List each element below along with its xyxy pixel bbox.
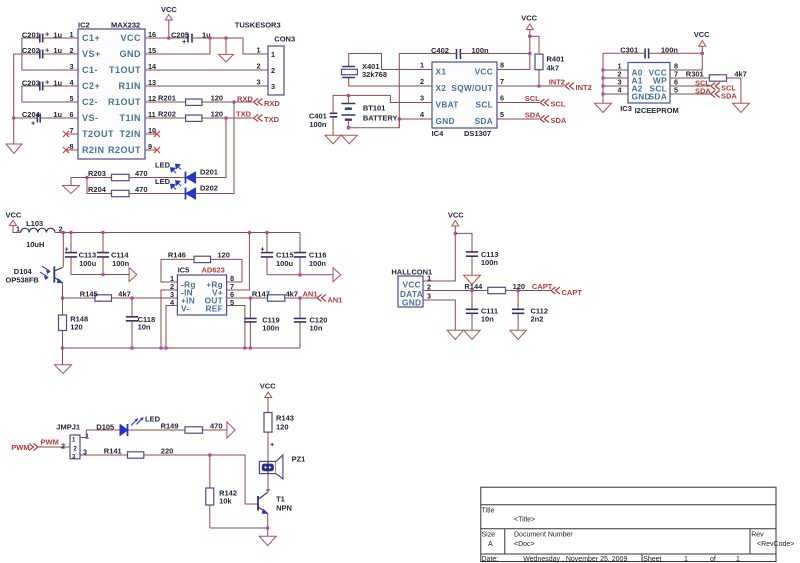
svg-text:T1IN: T1IN (119, 113, 141, 123)
svg-text:2: 2 (271, 66, 275, 75)
svg-text:VCC: VCC (448, 211, 464, 220)
svg-text:VCC: VCC (260, 382, 276, 391)
svg-text:R143: R143 (276, 414, 294, 423)
junction C116 bottom (298, 273, 302, 277)
ground symbol under battery (341, 135, 357, 144)
svg-text:R401: R401 (547, 55, 565, 64)
port SCL (DS1307) (540, 99, 566, 109)
svg-text:Sheet: Sheet (643, 556, 661, 563)
svg-text:OP538FB: OP538FB (6, 276, 40, 285)
IC3 pin names (632, 68, 668, 102)
capacitor C113a (65, 233, 97, 275)
svg-text:IC2: IC2 (78, 21, 90, 30)
title block texts (482, 508, 795, 563)
svg-text:TXD: TXD (236, 110, 252, 119)
svg-text:SCL: SCL (551, 100, 566, 109)
junction gnd tap (224, 36, 228, 40)
port PWM (11, 443, 38, 452)
svg-text:RXD: RXD (237, 95, 253, 104)
VCC power symbol IC3 (670, 30, 710, 70)
svg-text:CON3: CON3 (274, 35, 295, 44)
svg-text:R301: R301 (686, 70, 704, 79)
svg-text:C1-: C1- (82, 65, 98, 75)
svg-text:100n: 100n (262, 324, 280, 333)
inductor L103 (16, 219, 63, 249)
piezo speaker PZ1 (259, 455, 305, 479)
svg-text:SCL: SCL (525, 94, 540, 103)
svg-text:JMPJ1: JMPJ1 (56, 423, 80, 432)
svg-text:LED: LED (155, 177, 171, 186)
wire VCC rail amp top (55, 232, 300, 234)
svg-text:1: 1 (85, 432, 89, 441)
svg-text:R147: R147 (252, 290, 270, 299)
IC5 pin names (181, 280, 223, 314)
svg-text:V-: V- (181, 304, 189, 314)
junction emitter-R142 (266, 526, 270, 530)
junction R148 bottom (61, 346, 65, 350)
junction C115 riser (265, 231, 269, 235)
junction C118 tap (130, 296, 134, 300)
svg-text:R201: R201 (158, 94, 176, 103)
svg-text:VS+: VS+ (82, 49, 101, 59)
junction R203-R204 (85, 176, 89, 180)
power arrow symbol C114 (129, 268, 137, 282)
svg-text:1: 1 (16, 225, 20, 234)
VCC power symbol hall (423, 211, 464, 282)
svg-text:SDA: SDA (695, 87, 711, 96)
wire JMPJ1 pin1 to D105 (80, 430, 120, 438)
junction VCC-C301 (701, 52, 705, 56)
junction GND riser (398, 117, 402, 121)
wire C201 to pin1 and pin3 loop (22, 38, 78, 70)
capacitor C112 (512, 291, 548, 331)
svg-text:SDA: SDA (551, 116, 567, 125)
svg-text:REF: REF (206, 304, 224, 314)
svg-text:10n: 10n (481, 315, 494, 324)
IC U3 I2CEEPROM body (628, 63, 670, 104)
svg-text:4k7: 4k7 (547, 64, 560, 73)
junction VCC-C402 rail (528, 52, 532, 56)
svg-text:VCC: VCC (475, 67, 493, 77)
LED D105 (96, 415, 160, 437)
junction C114 bottom (101, 273, 105, 277)
junction GND pin (601, 92, 605, 96)
junction A0 (601, 68, 605, 72)
svg-text:R203: R203 (88, 169, 106, 178)
svg-text:+: + (65, 245, 69, 254)
connector HALLCON1 (391, 268, 432, 308)
svg-text:of: of (710, 556, 716, 563)
junction TXD-D201 (224, 116, 228, 120)
svg-text:R149: R149 (161, 422, 179, 431)
LED D201 (155, 161, 218, 184)
svg-text:2n2: 2n2 (531, 315, 544, 324)
svg-text:PWM: PWM (11, 443, 29, 452)
wire pin5 SDA (IC3) (670, 93, 711, 95)
svg-text:INT2: INT2 (576, 83, 592, 92)
svg-text:C2-: C2- (82, 97, 98, 107)
svg-text:BATTERY: BATTERY (363, 114, 398, 123)
resistor R401 (530, 36, 565, 86)
svg-text:IC4: IC4 (432, 129, 445, 138)
capacitor C116 (294, 233, 327, 275)
wire pin5 REF to gnd rail (227, 306, 245, 349)
wire pin6 SCL (IC3) (670, 85, 711, 87)
junction VCC-R401 tap (528, 34, 532, 38)
svg-text:10n: 10n (310, 324, 323, 333)
svg-text:SDA: SDA (475, 116, 493, 126)
svg-text:VCC: VCC (6, 211, 22, 220)
svg-text:D201: D201 (200, 168, 218, 177)
resistor R202 (145, 110, 253, 122)
svg-text:VCC: VCC (120, 33, 141, 43)
phototransistor D104 OP538FB (6, 233, 64, 299)
junction C113a riser (69, 231, 73, 235)
junction -IN bottom (159, 346, 163, 350)
svg-text:R144: R144 (464, 282, 483, 291)
wire C202 to pin2 and ground rail (14, 54, 78, 144)
junction D104-R145 (61, 296, 65, 300)
svg-text:4k7: 4k7 (118, 290, 131, 299)
wire analog-gnd rail C115/C116 (267, 274, 333, 276)
svg-text:INT2: INT2 (549, 78, 565, 87)
svg-text:TXD: TXD (264, 115, 280, 124)
IC2 right pin names (108, 33, 141, 155)
junction C119 bottom (249, 346, 253, 350)
svg-text:R141: R141 (104, 447, 122, 456)
svg-text:VCC: VCC (694, 30, 710, 39)
svg-text:AD623: AD623 (202, 266, 225, 275)
wire pin16 VCC net (145, 37, 188, 39)
junction L103-D104 (62, 231, 66, 235)
svg-text:SDA: SDA (649, 92, 667, 102)
svg-text:VCC: VCC (403, 280, 421, 290)
capacitor C201 (22, 30, 63, 43)
svg-text:470: 470 (210, 422, 223, 431)
capacitor C114 (97, 233, 130, 275)
svg-text:T1: T1 (276, 495, 285, 504)
junction C111 tap (470, 289, 474, 293)
svg-text:1: 1 (736, 556, 740, 563)
power arrow symbol C116 (333, 268, 341, 282)
svg-text:<Title>: <Title> (514, 517, 535, 524)
svg-text:+: + (270, 440, 274, 449)
svg-text:R2IN: R2IN (82, 145, 105, 155)
svg-text:R1OUT: R1OUT (108, 97, 141, 107)
junction RXD-D202 (232, 100, 236, 104)
port CAPT (551, 287, 582, 297)
svg-text:SCL: SCL (476, 100, 494, 110)
capacitor C119 (244, 298, 280, 348)
capacitor C401 (309, 112, 337, 130)
wire battery bottom rail to pin4 GND (348, 119, 432, 128)
svg-text:100n: 100n (481, 258, 499, 267)
resistor R201 (145, 94, 253, 106)
ground symbol under C112 (510, 330, 526, 339)
wire RXD to D202 (195, 102, 234, 194)
IC5 pin numbers (170, 274, 234, 307)
wire C401/battery top to pin3 VBAT (333, 95, 432, 113)
junction C120 tap (298, 296, 302, 300)
svg-text:C2+: C2+ (82, 81, 100, 91)
resistor R147 (227, 290, 317, 302)
svg-text:D202: D202 (200, 184, 218, 193)
svg-text:R202: R202 (158, 110, 176, 119)
power arrow symbol R149 (227, 422, 235, 438)
svg-text:120: 120 (211, 110, 224, 119)
svg-text:120: 120 (276, 423, 289, 432)
svg-text:NPN: NPN (276, 504, 292, 513)
IC2 left pin numbers (69, 30, 74, 151)
title block frame (481, 487, 776, 561)
wire to T1 base (245, 455, 258, 504)
junction R142 tap (208, 453, 212, 457)
wire crystal to pin2 X2 (349, 78, 432, 87)
wire emitter to ground (267, 514, 269, 537)
IC2 left pin names (82, 33, 114, 155)
svg-text:100u: 100u (276, 259, 294, 268)
svg-text:8: 8 (500, 61, 504, 70)
svg-text:MAX232: MAX232 (111, 21, 140, 30)
svg-text:R2OUT: R2OUT (108, 145, 141, 155)
svg-text:PWM: PWM (41, 438, 59, 447)
IC2 right pin numbers (148, 30, 157, 151)
svg-text:GND: GND (120, 49, 142, 59)
svg-text:4k7: 4k7 (734, 70, 747, 79)
junction V- bottom (164, 346, 168, 350)
svg-text:R145: R145 (80, 290, 98, 299)
wire TXD to D201 (195, 118, 226, 178)
port AN1 (317, 295, 342, 305)
resistor R301 (670, 70, 747, 104)
port SDA (IC3) (711, 91, 738, 101)
wire R142 bottom to emitter (210, 527, 268, 529)
wire C204 to pin6 and ground rail (14, 117, 78, 119)
svg-text:<Doc>: <Doc> (514, 541, 535, 548)
svg-text:2: 2 (61, 442, 65, 451)
svg-text:100n: 100n (309, 120, 327, 129)
svg-text:SQW/OUT: SQW/OUT (451, 83, 493, 93)
svg-text:100n: 100n (309, 259, 327, 268)
resistor R143 (264, 413, 294, 462)
junction REF bottom (243, 346, 247, 350)
capacitor C204 (22, 110, 63, 128)
svg-text:CAPT: CAPT (562, 288, 583, 297)
resistor R148 (59, 298, 89, 348)
IC U5 AD623 body (177, 275, 226, 315)
svg-text:VCC: VCC (161, 5, 177, 14)
svg-text:120: 120 (70, 323, 83, 332)
ground symbol under C401 (332, 117, 334, 135)
svg-text:1: 1 (271, 50, 275, 59)
svg-text:7: 7 (500, 77, 504, 86)
junction C118 bottom (130, 346, 134, 350)
wire GND pin3 down (423, 300, 455, 330)
wire PZ1 to collector (267, 474, 269, 493)
ground symbol under C111 (464, 330, 480, 339)
svg-text:R146: R146 (168, 251, 186, 260)
svg-text:5: 5 (500, 110, 504, 119)
capacitor C205 (171, 31, 211, 47)
svg-text:5: 5 (674, 86, 678, 95)
IC U2 MAX232 body (78, 29, 145, 159)
svg-text:C1+: C1+ (82, 33, 100, 43)
no-connect pin8 (63, 147, 78, 153)
port SCL (IC3) (711, 83, 737, 93)
capacitor C113b (455, 233, 498, 275)
svg-text:4k7: 4k7 (286, 290, 299, 299)
wire pin6 SCL (497, 102, 539, 104)
svg-text:SDA: SDA (721, 92, 737, 101)
svg-text:<RevCode>: <RevCode> (757, 541, 794, 548)
IC3 pin numbers (617, 62, 678, 95)
wire C203 to pin4 and pin5 loop (22, 86, 78, 102)
svg-text:+: + (31, 119, 35, 128)
ground symbol left rail (6, 144, 22, 154)
svg-text:Size: Size (482, 532, 496, 539)
svg-text:1: 1 (684, 556, 688, 563)
svg-text:VBAT: VBAT (436, 100, 459, 110)
VCC power symbol DS1307 (497, 14, 538, 70)
capacitor C118 (126, 298, 155, 348)
svg-text:D105: D105 (96, 423, 114, 432)
port RXD (254, 99, 281, 109)
svg-text:IC3: IC3 (620, 104, 632, 113)
svg-text:GND: GND (402, 298, 421, 308)
svg-text:Rev: Rev (751, 532, 764, 539)
svg-text:AN1: AN1 (327, 296, 342, 305)
svg-text:1: 1 (427, 274, 431, 283)
svg-text:TUSKESOR3: TUSKESOR3 (235, 21, 281, 30)
svg-text:RXD: RXD (264, 99, 280, 108)
port INT2 (565, 83, 592, 93)
svg-text:C205: C205 (171, 31, 189, 40)
wire pin4 V- to gnd rail (166, 306, 177, 349)
svg-text:DS1307: DS1307 (464, 129, 491, 138)
resistor R145 (63, 290, 178, 302)
IC4 pin names (436, 67, 494, 127)
capacitor C202 (22, 46, 63, 59)
junction C112 tap (516, 289, 520, 293)
wire DATA pin2 to R144 (423, 290, 551, 292)
svg-text:3: 3 (256, 78, 260, 87)
VCC power symbol (161, 5, 177, 38)
wire IC3 address pins to gnd rail (603, 53, 628, 103)
junction VCC hall (454, 232, 458, 236)
IC4 pin numbers (420, 61, 504, 120)
VCC power symbol amp (6, 211, 22, 233)
wire pin5 SDA (497, 118, 539, 120)
svg-text:6: 6 (500, 94, 504, 103)
wire pin7 SQWOUT to INT2 (497, 85, 564, 87)
crystal X401 (342, 62, 388, 79)
svg-text:CAPT: CAPT (532, 282, 553, 291)
svg-text:T1OUT: T1OUT (109, 65, 141, 75)
svg-text:470: 470 (135, 185, 148, 194)
junction pin15 riser (208, 36, 212, 40)
svg-text:120: 120 (211, 94, 224, 103)
svg-text:1: 1 (256, 46, 260, 55)
svg-text:100u: 100u (79, 259, 97, 268)
battery BT101 (341, 95, 397, 127)
ground symbol under C113b (464, 275, 481, 284)
resistor R144 (464, 282, 525, 294)
junction battery top (347, 94, 351, 98)
svg-text:32k768: 32k768 (362, 70, 387, 79)
VCC power symbol R143 (260, 382, 276, 413)
wire C205 to CON3 pin1 / gnd node (145, 38, 268, 54)
ground symbol LEDs (63, 178, 88, 194)
svg-text:Wednesday , November 25, 2009: Wednesday , November 25, 2009 (523, 556, 627, 563)
junction battery bottom (347, 126, 351, 130)
wire amp bottom rail (63, 347, 301, 349)
svg-text:120: 120 (217, 251, 230, 260)
ground symbol T1 (259, 536, 276, 545)
junction V+ riser (248, 231, 252, 235)
capacitor C301 (620, 46, 678, 59)
svg-text:I2CEEPROM: I2CEEPROM (635, 106, 679, 115)
junction C114 riser (101, 231, 105, 235)
svg-text:L103: L103 (26, 219, 43, 228)
junction A1 (601, 76, 605, 80)
junction C119 tap (249, 296, 253, 300)
svg-text:PZ1: PZ1 (292, 455, 306, 464)
ground symbol IC3 (595, 103, 612, 112)
svg-text:220: 220 (161, 447, 174, 456)
ground symbol amp (55, 348, 72, 374)
no-connect pin10 (145, 131, 160, 137)
svg-text:1: 1 (420, 61, 424, 70)
svg-text:10n: 10n (138, 323, 151, 332)
wire pin7 V+ riser (227, 233, 250, 291)
capacitor C111 (466, 291, 498, 331)
svg-text:LED: LED (155, 161, 171, 170)
ground symbol near CON3 (225, 38, 227, 54)
resistor R149 (128, 422, 227, 434)
port TXD (254, 115, 280, 125)
connector JMPJ1 (56, 423, 89, 461)
svg-text:R204: R204 (88, 185, 107, 194)
wire analog-gnd rail C113a/C114 (71, 274, 129, 276)
wire pin13 to CON3 pin3 (145, 85, 268, 87)
svg-text:470: 470 (135, 169, 148, 178)
transistor Q T1 NPN (258, 490, 292, 514)
svg-text:+: + (45, 30, 49, 39)
wire crystal to pin1 X1 (349, 54, 432, 70)
IC U4 DS1307 body (432, 62, 497, 128)
svg-text:+: + (260, 245, 264, 254)
svg-text:Title: Title (482, 508, 495, 515)
capacitor C120 (294, 298, 328, 348)
port SDA (DS1307) (540, 116, 567, 126)
capacitor C115 (260, 233, 293, 275)
wire pin2 -IN to gnd rail (161, 290, 177, 348)
junction VCC-pin16 (167, 36, 171, 40)
wire pin14 to CON3 pin2 (145, 69, 268, 71)
resistor R142 (206, 455, 237, 528)
svg-text:R1IN: R1IN (118, 81, 141, 91)
junction R401-INT2 (537, 84, 541, 88)
resistor R141 (80, 447, 245, 459)
svg-text:2: 2 (420, 77, 424, 86)
svg-text:VCC: VCC (521, 14, 537, 23)
svg-text:10k: 10k (219, 497, 232, 506)
svg-text:+: + (45, 78, 49, 87)
connector CON3 header (235, 21, 295, 96)
svg-text:BT101: BT101 (363, 104, 386, 113)
svg-text:Date:: Date: (482, 556, 499, 563)
svg-text:10uH: 10uH (26, 240, 44, 249)
